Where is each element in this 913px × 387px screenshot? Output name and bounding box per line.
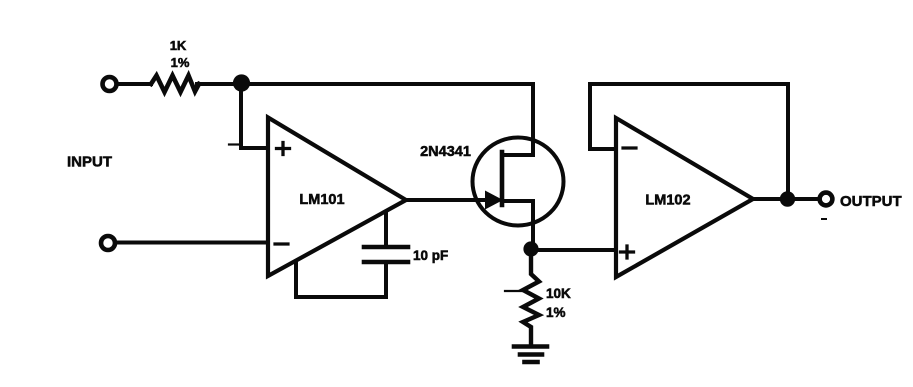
U2 feedback loop wire — [590, 84, 788, 198]
Q1 source horizontal and wire down to node B — [502, 201, 533, 249]
node A junction dot — [233, 74, 250, 91]
wire node A down to + input of U1 — [241, 84, 266, 148]
svg-text:INPUT: INPUT — [67, 154, 112, 171]
svg-text:1%: 1% — [546, 305, 566, 320]
wire U1 output to JFET gate — [405, 198, 491, 202]
wire node B to + input of U2 — [531, 248, 614, 252]
U1 minus input symbol — [275, 242, 288, 245]
U2 plus input symbol — [621, 246, 634, 258]
op-amp U1 LM101 triangle — [268, 118, 406, 277]
resistor R1 1K 1% — [151, 76, 199, 93]
wire node A to JFET drain (top rail) — [241, 84, 533, 155]
svg-text:1%: 1% — [171, 55, 190, 70]
ground symbol — [514, 347, 547, 363]
svg-text:10 pF: 10 pF — [413, 248, 448, 263]
node B junction dot — [523, 241, 538, 256]
Q1 gate arrowhead — [485, 191, 503, 210]
node C output junction dot — [780, 191, 795, 206]
U2 minus input symbol — [623, 146, 636, 149]
U1 plus input symbol — [277, 143, 290, 155]
Q1 drain horizontal — [502, 153, 533, 157]
transistor Q1 2N4341 circle — [473, 138, 564, 226]
resistor R2 10K 1% vertical — [523, 249, 539, 345]
svg-text:1K: 1K — [170, 38, 187, 53]
svg-text:LM102: LM102 — [645, 193, 690, 209]
input terminal J1 (top) — [103, 77, 117, 91]
output terminal J3 — [820, 193, 833, 206]
svg-text:LM101: LM101 — [299, 192, 344, 208]
wire terminal to resistor R1 — [117, 82, 151, 86]
wire U1 feedback step down — [296, 263, 386, 297]
Q1 channel bar — [500, 152, 505, 205]
svg-text:10K: 10K — [546, 286, 571, 301]
input terminal J2 (bottom) — [101, 236, 115, 250]
svg-text:OUTPUT: OUTPUT — [840, 193, 902, 210]
speck artifact below output terminal — [822, 218, 826, 220]
capacitor C1 plates 10 pF — [364, 247, 408, 262]
capacitor C1 vertical lead from U1 edge — [384, 213, 388, 245]
svg-text:2N4341: 2N4341 — [420, 144, 471, 160]
wire stub artifact near U1 plus input — [229, 143, 238, 145]
wire terminal J2 to - input of U1 — [116, 241, 266, 245]
wire stub artifact near R2 top — [505, 290, 525, 292]
wire U2 output to terminal — [753, 197, 819, 201]
wire R1 to node A — [197, 82, 241, 86]
op-amp U2 LM102 triangle — [616, 118, 753, 277]
